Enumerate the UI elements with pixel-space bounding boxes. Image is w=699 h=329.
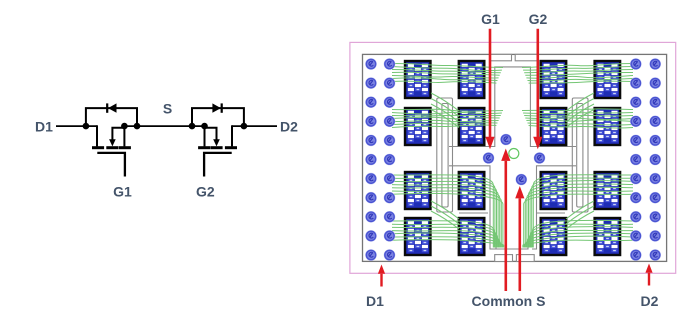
Q1 drain leg: [96, 125, 98, 146]
cell block D2: [595, 108, 621, 145]
diode D (cathode left): [108, 103, 117, 112]
arrow common S (upper): [501, 149, 510, 161]
bond wires top-left quadrant row2: [392, 109, 503, 127]
package outline (pink): [350, 42, 676, 273]
cell block C4: [541, 218, 567, 255]
bond wires bottom-left quadrant row4 (to common S): [392, 221, 504, 248]
arrow D2: [645, 264, 652, 273]
svg-text:G1: G1: [481, 11, 500, 27]
bond wires bottom-right quadrant row4 (to common S): [523, 220, 633, 247]
svg-text:G2: G2: [529, 11, 548, 27]
arrow D1: [378, 265, 385, 274]
junction dot Q2 source: [201, 123, 208, 130]
left inter-block rail outer: [437, 98, 453, 212]
pad S top: [500, 134, 512, 146]
annotation labels: [366, 11, 659, 309]
junction dot Q1 drain/diode: [83, 123, 90, 130]
svg-text:D1: D1: [366, 293, 384, 309]
bond wires crossing right rail: [566, 93, 594, 229]
svg-text:D2: D2: [641, 293, 659, 309]
green ring pad: [509, 149, 519, 159]
bond pad columns: [365, 58, 661, 261]
Q2 drain leg: [231, 125, 233, 146]
svg-text:G2: G2: [196, 184, 215, 200]
bottom channel inner U: [496, 243, 528, 249]
bond wires top-right quadrant row2: [522, 109, 633, 128]
cell block A1: [405, 61, 431, 98]
cell block C2: [541, 108, 567, 145]
svg-text:D2: D2: [280, 119, 298, 135]
wire Q2 drain to D2: [232, 125, 277, 127]
right inter-block rail inner: [577, 104, 583, 208]
Q2 body contact with arrow: [205, 128, 217, 140]
cell blocks (16): [405, 61, 620, 255]
cell block C1: [541, 61, 567, 98]
junction dot Q2 drain/diode return: [241, 123, 248, 130]
lead frame structures (gray outlines): [437, 54, 588, 261]
bond wires bottom-right quadrant row3: [524, 175, 633, 248]
bottom lead tab left: [495, 255, 513, 262]
bond wires crossing left rail: [431, 93, 459, 229]
center pads: [483, 134, 546, 186]
svg-text:S: S: [163, 101, 172, 117]
right inter-block rail outer: [572, 98, 588, 212]
body diode of Q2: [192, 103, 244, 126]
bond wires bottom-left quadrant row3: [392, 175, 503, 248]
pad S bottom: [516, 174, 528, 186]
cell block A3: [405, 172, 431, 209]
arrow common S (lower): [515, 186, 524, 198]
svg-text:Common S: Common S: [472, 293, 546, 309]
wire S node (Q1 source to Q2 source): [124, 125, 204, 127]
Q1 body contact with arrow: [112, 128, 124, 140]
junction dot Q1 source: [121, 123, 128, 130]
cell block A2: [405, 108, 431, 145]
bond wires top-left quadrant row1: [392, 63, 503, 83]
arrow G1: [489, 29, 492, 137]
transistor Q2: [198, 125, 237, 176]
transistor Q1: [92, 125, 131, 176]
top lead tab right: [515, 54, 537, 60]
cell block C3: [541, 172, 567, 209]
diode branch wire: [192, 108, 244, 126]
wire D1 to Q1 drain: [56, 125, 97, 127]
pad G2: [534, 152, 546, 164]
cell block A4: [405, 218, 431, 255]
Q2 source leg: [204, 126, 206, 146]
svg-text:D1: D1: [35, 119, 53, 135]
junction dot Q1 diode return: [134, 123, 141, 130]
center top channel walls: [449, 67, 576, 147]
bond wires top-right quadrant row1: [522, 63, 633, 83]
cell block B2: [459, 108, 485, 145]
cell block B1: [459, 61, 485, 98]
cell block B4: [459, 218, 485, 255]
bond pads right columns: [630, 58, 661, 261]
Q2 gate bar and lead: [204, 153, 232, 177]
Q1 gate bar and lead: [97, 153, 125, 177]
left inter-block rail inner: [442, 104, 448, 208]
Q2 channel bars: [198, 146, 210, 149]
center bottom channel walls: [449, 166, 496, 249]
connector under row3 blocks right: [537, 212, 565, 214]
arrow G2: [537, 29, 540, 137]
top lead tab left: [490, 54, 512, 60]
bond wires (green): [392, 63, 633, 247]
cell block D4: [595, 218, 621, 255]
bottom lead tab right: [516, 255, 534, 262]
cell block D1: [595, 61, 621, 98]
Q1 source leg: [123, 126, 125, 146]
junction dot Q2 diode/S: [189, 123, 196, 130]
red annotation arrows: [378, 29, 653, 291]
cell block D3: [595, 172, 621, 209]
bond pads left columns: [365, 58, 395, 261]
die frame border (gray): [363, 54, 667, 261]
pad G1: [483, 152, 495, 164]
diode D (cathode right): [212, 103, 221, 112]
body diode of Q1: [86, 103, 137, 126]
connector under row3 blocks left: [459, 212, 488, 214]
Q1 channel bars: [92, 146, 104, 149]
diode branch wire: [86, 108, 137, 126]
svg-text:G1: G1: [113, 184, 132, 200]
cell block B3: [459, 172, 485, 209]
